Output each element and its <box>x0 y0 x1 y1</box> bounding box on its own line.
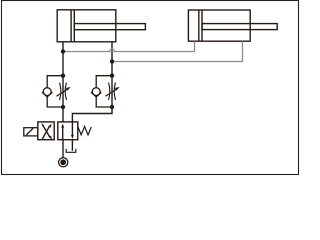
wire: node J1 to cylinder A2 cap-end port (hop over crossing line) <box>63 41 195 51</box>
F2 bypass branch lower leg <box>96 96 112 107</box>
cylinder A2 piston <box>198 10 200 41</box>
node J1 (junction on A1 cap-end line) <box>61 49 65 53</box>
F1 adjustment arrow <box>56 89 67 96</box>
F1 bypass branch lower leg <box>47 96 63 107</box>
F2 bypass branch upper leg <box>96 76 112 88</box>
node: F1 bottom junction dot <box>61 105 65 109</box>
valve V1 right position box with straight-flow arrows <box>58 122 78 140</box>
V1 straight arrow down <box>71 122 73 135</box>
wire: node J2 to cylinder A2 rod-end port <box>112 41 243 61</box>
F1 main line <box>62 76 64 107</box>
F1 throttle arcs <box>60 83 61 100</box>
V1 right position box <box>58 122 78 140</box>
valve V1 (4/2 directional valve) left position box with crossed-flow arrows <box>38 122 54 140</box>
V1 left position box <box>38 122 54 140</box>
cylinder A2 (right double-acting cylinder) <box>188 10 277 41</box>
cylinder A1 barrel <box>57 10 116 42</box>
F1 check valve seat <box>42 92 52 97</box>
node J2 (junction on A1 rod-end line) <box>110 59 114 63</box>
cylinder A1 piston rod <box>74 24 145 30</box>
flow control valve F1 (throttle with check-valve bypass) <box>42 76 71 107</box>
F1 bypass branch upper leg <box>47 76 63 88</box>
exhaust symbol R <box>66 149 76 152</box>
F2 throttle arcs <box>109 83 110 100</box>
flow control valve F2 (throttle with check-valve bypass) <box>91 76 120 107</box>
spring return on V1 right side <box>78 126 92 134</box>
Y1 solenoid box <box>24 128 38 136</box>
wire: F1 bottom to valve V1 working port A <box>62 107 64 122</box>
Y1 solenoid diagonal <box>26 128 33 135</box>
F2 check valve ball <box>92 88 100 96</box>
V1 straight arrow head (up) <box>61 124 64 128</box>
cylinder A1 (left double-acting cylinder) <box>57 10 145 42</box>
node: F2 bottom junction dot <box>110 105 114 109</box>
node: F2 top junction dot <box>110 74 114 78</box>
V1 crossed arrow down-right <box>42 124 50 137</box>
wire: F2 bottom jog to valve V1 working port B <box>72 107 112 122</box>
cylinder A2 barrel <box>188 10 250 41</box>
wire: V1 pressure port P down to source <box>62 140 64 158</box>
F2 adjustment arrow <box>105 89 116 96</box>
cylinder A1 piston <box>70 10 72 42</box>
node: F1 top junction dot <box>61 74 65 78</box>
V1 straight arrow up <box>62 127 64 140</box>
wire: V1 exhaust port R down <box>71 140 73 151</box>
F2 check valve seat <box>91 92 101 97</box>
F2 main line <box>111 76 113 107</box>
cylinder A2 piston rod <box>202 24 277 30</box>
V1 crossed arrow head (upper) <box>49 124 52 128</box>
F1 check valve ball <box>43 88 51 96</box>
solenoid actuator Y1 on V1 left side <box>24 128 38 136</box>
pressure source P (circle with filled dot) <box>59 158 68 167</box>
V1 crossed arrow up-right <box>42 126 50 140</box>
V1 straight arrow head (down) <box>71 135 74 139</box>
V1 crossed arrow head (lower) <box>49 136 52 140</box>
wire: cylinder A1 cap-end port down to flow valve F1 <box>62 42 64 76</box>
wire: cylinder A1 rod-end port down to flow valve F2 <box>111 42 113 76</box>
